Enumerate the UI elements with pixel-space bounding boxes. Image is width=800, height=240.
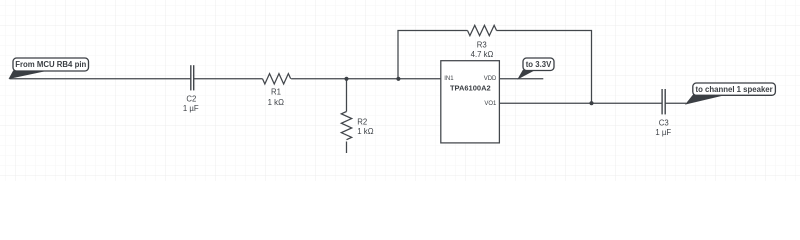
node junction dot at feedback right VO1 [589,101,593,105]
svg-text:to channel 1 speaker: to channel 1 speaker [696,85,773,94]
svg-text:IN1: IN1 [444,76,454,82]
svg-text:From MCU RB4 pin: From MCU RB4 pin [15,60,86,69]
svg-text:to 3.3V: to 3.3V [526,60,552,69]
wire VO1 to C3 [499,102,662,104]
wire C2 to R1 [194,78,263,80]
svg-text:4.7 kΩ: 4.7 kΩ [471,50,494,59]
wire feedback up left [398,31,468,79]
wire C3 to output flag [665,102,686,104]
flag From MCU RB4 pin [10,58,89,78]
svg-text:1 kΩ: 1 kΩ [357,127,373,136]
svg-text:1 µF: 1 µF [183,104,199,113]
svg-text:C3: C3 [659,118,669,127]
svg-text:VO1: VO1 [484,101,497,107]
node junction dot at R2 [344,77,348,81]
wire R1 to IC IN1 [291,78,441,80]
svg-text:C2: C2 [186,95,196,104]
wire R2 bottom open end [346,142,348,154]
node junction dot at feedback left [396,77,400,81]
svg-text:VDD: VDD [484,76,497,82]
resistor R3 [468,25,497,35]
svg-text:1 kΩ: 1 kΩ [268,98,284,107]
svg-text:R2: R2 [357,117,367,126]
capacitor C3 [662,89,665,114]
svg-text:1 µF: 1 µF [655,128,671,137]
wire VDD pin stub [499,78,543,80]
capacitor C2 [191,65,194,90]
resistor R2 [341,112,351,140]
wire feedback top right and down to VO1 [497,31,592,104]
flag to channel 1 speaker [686,83,775,104]
resistor R1 [263,74,291,84]
wire R2 vertical [346,79,348,112]
svg-text:R1: R1 [271,88,281,97]
op-amp U1 TPA6100A2 box [441,61,500,143]
flag to 3.3V [519,58,555,78]
wire main input from flag to C2 [10,78,191,80]
svg-text:R3: R3 [477,40,487,49]
svg-text:TPA6100A2: TPA6100A2 [450,83,491,92]
